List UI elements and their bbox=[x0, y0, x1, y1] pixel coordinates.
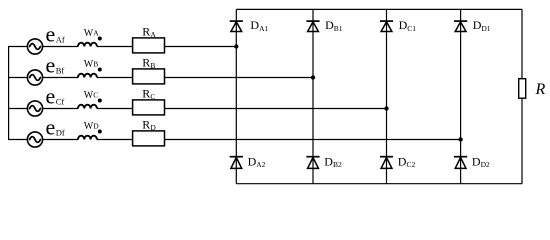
diode D_B2 bbox=[306, 157, 319, 169]
resistor R_A bbox=[133, 38, 165, 53]
svg-text:WB: WB bbox=[84, 59, 98, 70]
polarity dot W_C bbox=[98, 99, 102, 103]
source e_Bf (AC source) bbox=[27, 70, 42, 85]
wire branch D bus to source bbox=[8, 139, 28, 141]
wire branch B bus to source bbox=[8, 77, 28, 79]
resistor R_C bbox=[133, 100, 165, 115]
wire inductor C to resistor C bbox=[97, 108, 133, 110]
node junction B bbox=[311, 75, 315, 79]
wire column A bbox=[235, 9, 237, 183]
wire source to inductor C bbox=[43, 108, 79, 110]
svg-text:WD: WD bbox=[84, 121, 99, 132]
svg-text:R: R bbox=[535, 81, 546, 98]
node junction A bbox=[234, 44, 238, 48]
source e_Af (AC source) bbox=[27, 39, 42, 54]
diode D_B1 bbox=[306, 21, 319, 31]
wire right side bbox=[521, 9, 523, 183]
diode D_D1 bbox=[454, 21, 467, 31]
wire top bus bbox=[236, 8, 522, 10]
wire column B bbox=[312, 9, 314, 183]
polarity dot W_B bbox=[98, 68, 102, 72]
wire source to inductor A bbox=[43, 46, 79, 48]
diode D_D2 bbox=[454, 157, 467, 169]
svg-text:WA: WA bbox=[84, 28, 99, 39]
wire branch C bus to source bbox=[8, 108, 28, 110]
wire column D bbox=[460, 9, 462, 183]
wire bottom bus bbox=[236, 183, 522, 185]
wire resistor C to column C bbox=[165, 108, 387, 110]
wire resistor D to column D bbox=[165, 139, 461, 141]
wire resistor A to column A bbox=[165, 46, 237, 48]
node junction D bbox=[458, 137, 462, 141]
wire column C bbox=[386, 9, 388, 183]
inductor W_C bbox=[78, 105, 97, 109]
diode D_C1 bbox=[380, 21, 393, 31]
resistor R_B bbox=[133, 69, 165, 84]
wire branch A bus to source bbox=[8, 46, 28, 48]
source e_Cf (AC source) bbox=[27, 101, 42, 116]
node junction C bbox=[384, 106, 388, 110]
inductor W_A bbox=[78, 43, 97, 47]
wire inductor D to resistor D bbox=[97, 139, 133, 141]
wire source to inductor B bbox=[43, 77, 79, 79]
source e_Df (AC source) bbox=[27, 132, 42, 147]
resistor R_D bbox=[133, 131, 165, 146]
wire inductor A to resistor A bbox=[97, 46, 133, 48]
polarity dot W_A bbox=[98, 37, 102, 41]
polarity dot W_D bbox=[98, 130, 102, 134]
wire source to inductor D bbox=[43, 139, 79, 141]
inductor W_D bbox=[78, 136, 97, 140]
wire inductor B to resistor B bbox=[97, 77, 133, 79]
diode D_A2 bbox=[230, 157, 243, 169]
inductor W_B bbox=[78, 74, 97, 78]
svg-text:WC: WC bbox=[84, 90, 98, 101]
diode D_C2 bbox=[380, 157, 393, 169]
wire left bus bbox=[8, 47, 10, 140]
resistor R load bbox=[519, 79, 526, 99]
diode D_A1 bbox=[230, 21, 243, 31]
wire resistor B to column B bbox=[165, 77, 314, 79]
